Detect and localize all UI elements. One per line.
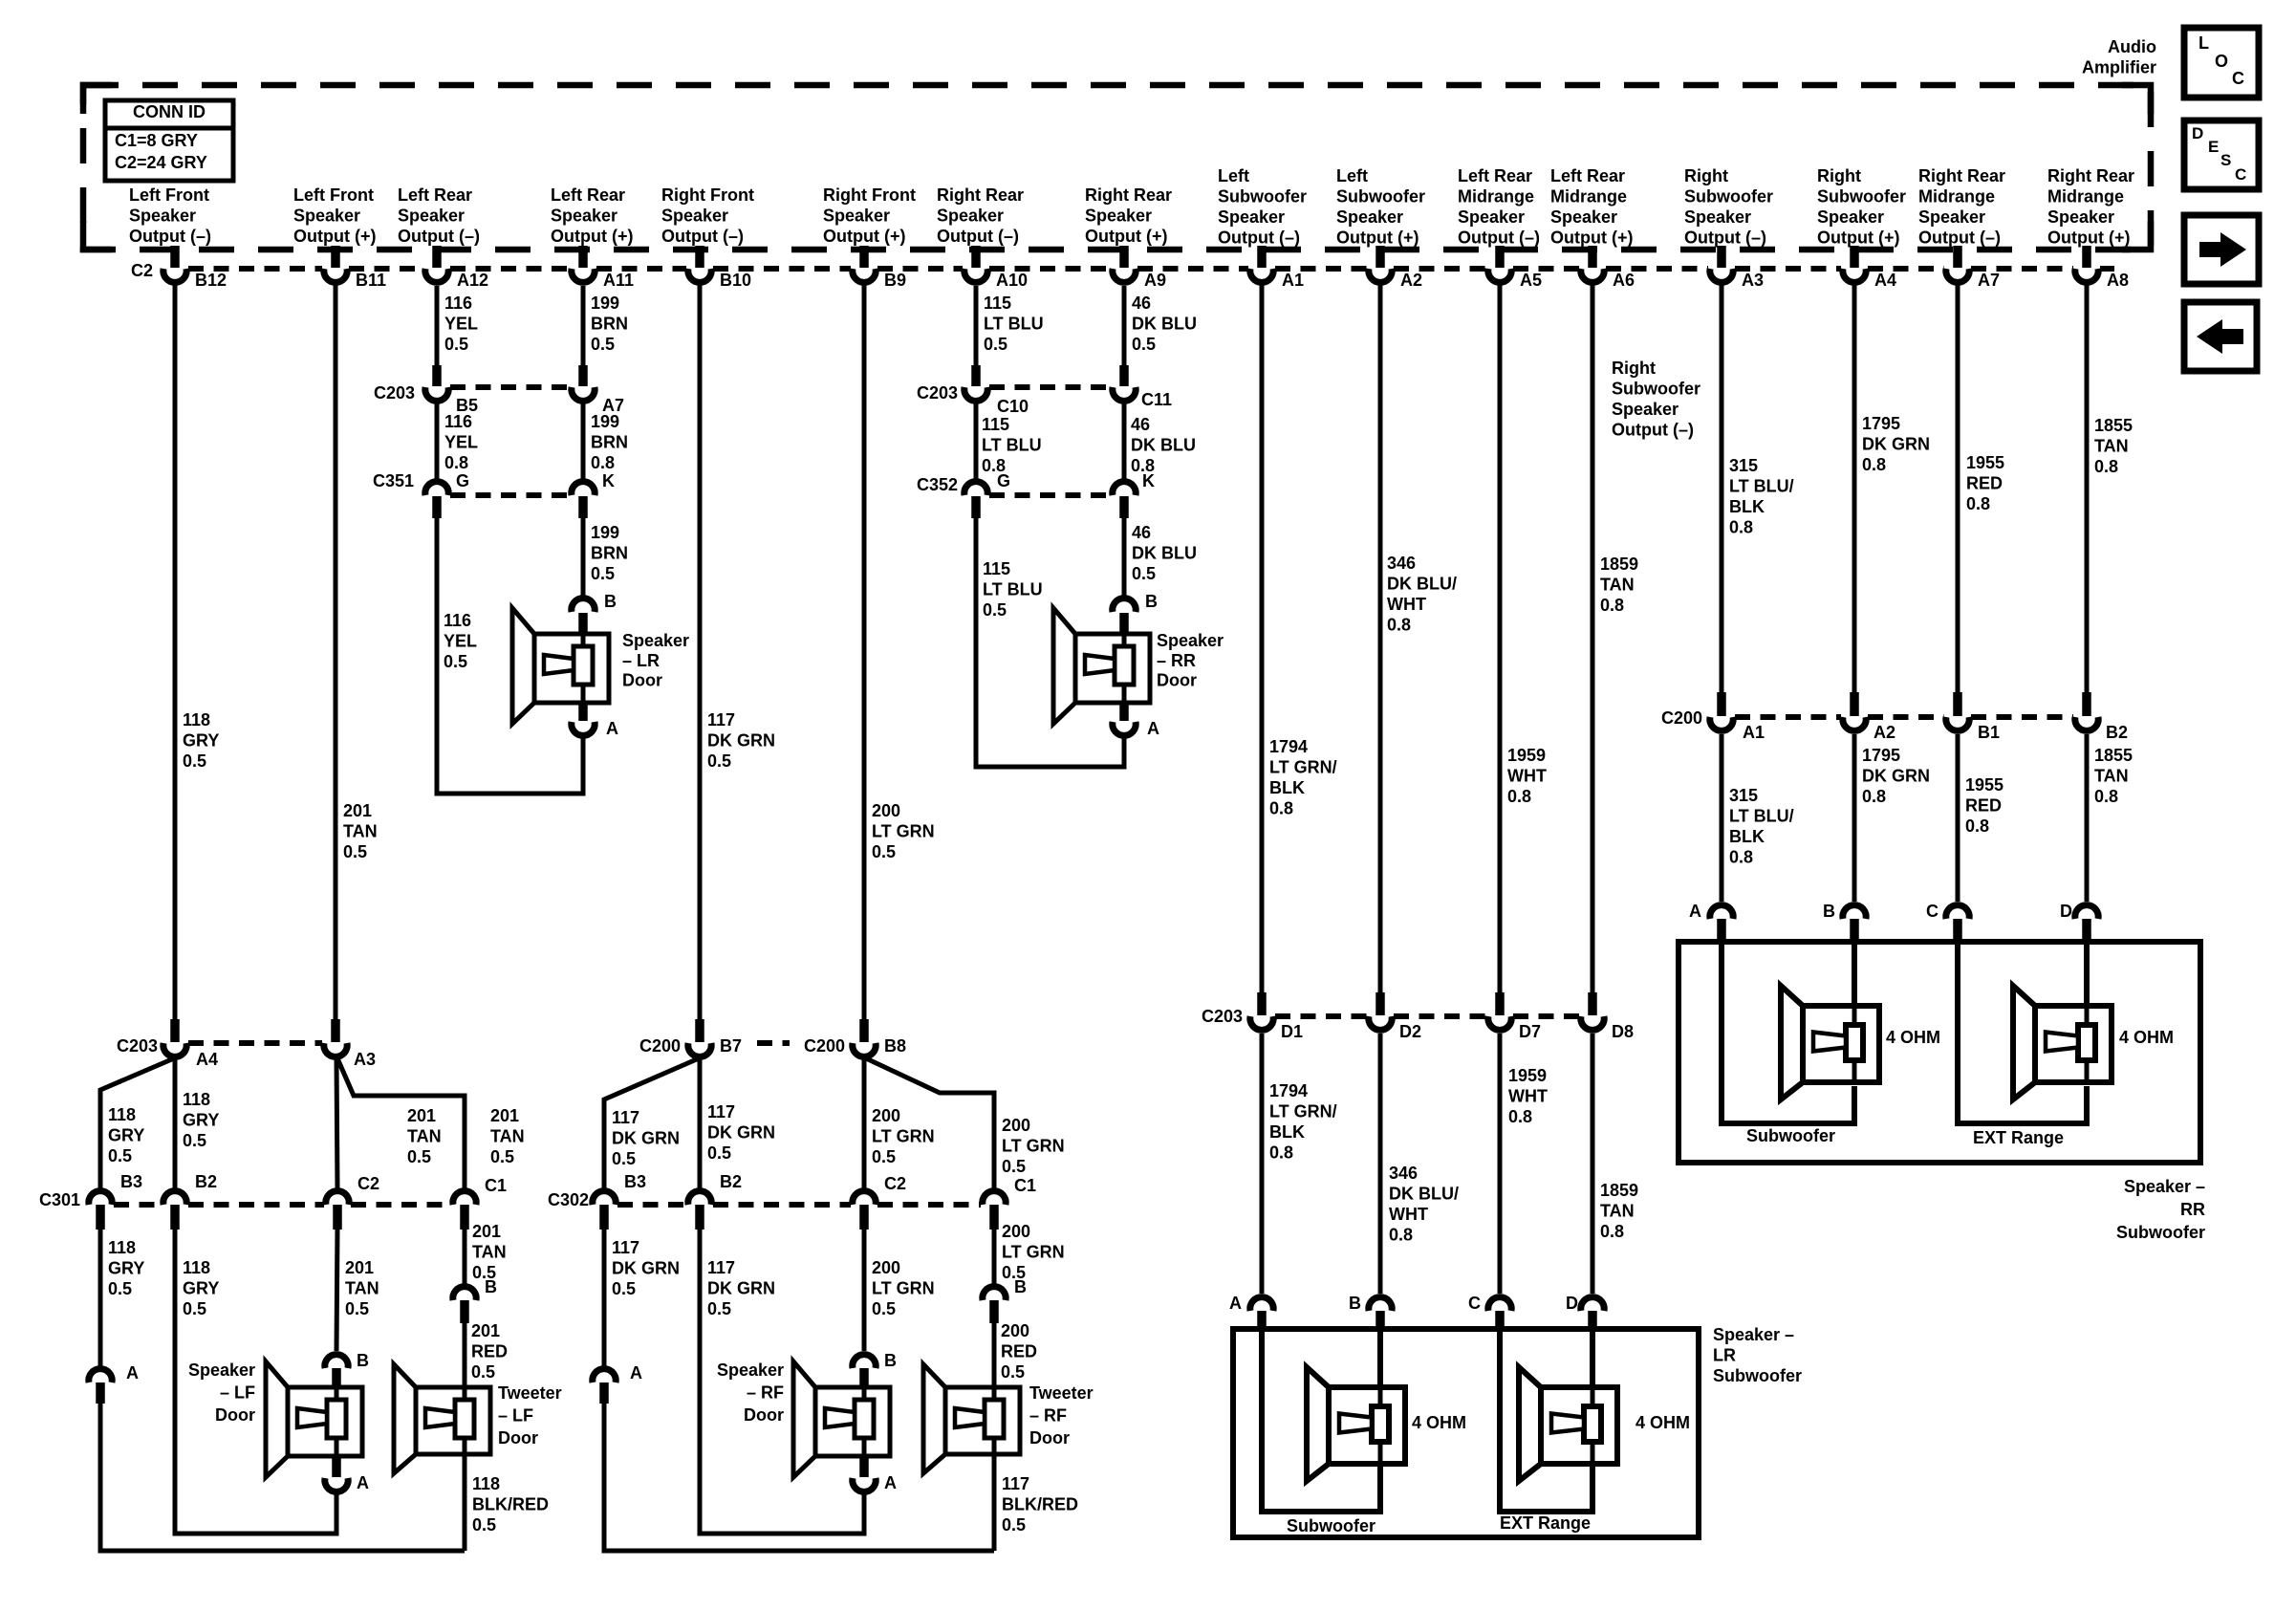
label 201 RED 0.5 (tweeter feed)	[471, 1321, 508, 1382]
svg-text:201: 201	[343, 801, 372, 820]
svg-text:C2: C2	[131, 261, 153, 280]
svg-text:Midrange: Midrange	[1458, 187, 1534, 207]
svg-text:D7: D7	[1519, 1022, 1541, 1041]
svg-text:C200: C200	[1661, 708, 1702, 728]
svg-text:117: 117	[612, 1108, 639, 1127]
label 201 TAN 0.5 (B11 run)	[343, 801, 378, 861]
label 200 LT GRN 0.5 (C1 branch)	[1002, 1116, 1065, 1176]
label 1795 DK GRN 0.8 (A4 upper)	[1862, 414, 1930, 474]
svg-text:D: D	[1566, 1294, 1578, 1313]
svg-text:C2: C2	[884, 1174, 906, 1193]
svg-text:Output (–): Output (–)	[1458, 229, 1540, 248]
svg-text:B3: B3	[624, 1172, 646, 1191]
speaker - RR subwoofer label	[2116, 1177, 2205, 1242]
connector C203 pin D7	[1488, 992, 1541, 1041]
svg-text:C1: C1	[1014, 1176, 1036, 1195]
svg-text:– LR: – LR	[622, 651, 660, 670]
svg-text:Door: Door	[744, 1405, 784, 1425]
wire LF tweeter to return	[463, 1454, 467, 1551]
svg-text:Speaker: Speaker	[2047, 207, 2114, 227]
speaker - LF door symbol	[266, 1361, 362, 1477]
svg-text:WHT: WHT	[1507, 767, 1547, 786]
svg-text:B9: B9	[884, 271, 906, 290]
svg-text:200: 200	[872, 801, 900, 820]
header pin A3: Right Subwoofer Speaker Output (–)	[1684, 166, 1773, 248]
svg-text:C11: C11	[1141, 390, 1172, 409]
C200 row dashed line (RF group)	[757, 1040, 790, 1046]
LR sub: subwoofer 4 OHM label	[1412, 1413, 1466, 1432]
svg-text:B2: B2	[195, 1172, 217, 1191]
wire 201 TAN from B11 down to C203	[334, 284, 338, 1021]
svg-text:Speaker: Speaker	[937, 207, 1004, 226]
label 46 DK BLU 0.5 (below K)	[1132, 523, 1197, 583]
svg-text:B: B	[1349, 1294, 1361, 1313]
svg-text:0.8: 0.8	[1508, 1107, 1532, 1126]
svg-text:A8: A8	[2107, 271, 2129, 290]
connector C352 pin G	[964, 471, 1010, 518]
svg-text:BLK/RED: BLK/RED	[472, 1495, 549, 1514]
svg-text:BLK/RED: BLK/RED	[1002, 1495, 1078, 1514]
wire D8 to LR sub D	[1591, 1034, 1595, 1294]
RR sub: EXT driver loop	[1958, 942, 2087, 1123]
svg-text:D1: D1	[1281, 1022, 1303, 1041]
connector C302 pin C1	[983, 1176, 1036, 1230]
wire 1855 TAN from A8	[2085, 284, 2090, 694]
wire B3 to LF door connector A	[98, 1228, 103, 1367]
svg-text:RED: RED	[1965, 796, 2002, 816]
svg-text:0.5: 0.5	[872, 1147, 896, 1166]
svg-text:TAN: TAN	[2094, 767, 2129, 786]
svg-text:B: B	[1145, 592, 1158, 611]
svg-text:LT GRN/: LT GRN/	[1269, 758, 1337, 777]
label 1859 TAN 0.8 (A6 upper)	[1600, 555, 1638, 615]
svg-text:1955: 1955	[1965, 775, 2004, 795]
label 1795 DK GRN 0.8 (A4 lower)	[1862, 746, 1930, 806]
speaker LF door A label	[357, 1473, 369, 1492]
svg-text:C302: C302	[548, 1190, 589, 1209]
connector C301 pin C2	[326, 1174, 379, 1230]
svg-text:0.5: 0.5	[591, 335, 615, 354]
legend LOC box	[2184, 28, 2259, 98]
LR sub: EXT driver loop	[1500, 1329, 1592, 1512]
RF door inline connector A	[593, 1363, 642, 1404]
wire B2 down to RF speaker A	[700, 1228, 864, 1534]
svg-text:LT GRN: LT GRN	[872, 1127, 935, 1146]
svg-text:C203: C203	[917, 383, 958, 403]
connector C200 (subwoofer) dashed line	[1735, 714, 2073, 720]
wire 346 DK BLU/WHT from A2	[1378, 284, 1383, 994]
svg-text:DK BLU: DK BLU	[1132, 315, 1197, 334]
legend DESC box	[2184, 120, 2259, 189]
svg-text:0.8: 0.8	[591, 453, 615, 472]
svg-text:118: 118	[183, 1090, 210, 1109]
LR sub: subwoofer driver feed	[1377, 1329, 1383, 1389]
svg-text:315: 315	[1729, 456, 1758, 475]
svg-text:Output (–): Output (–)	[1612, 421, 1694, 440]
label 115 LT BLU 0.5 (A10)	[984, 294, 1044, 354]
wire G down to RR speaker A	[976, 516, 1124, 767]
wire 1795 DK GRN from A4	[1852, 284, 1857, 694]
svg-text:Left Rear: Left Rear	[551, 185, 625, 205]
svg-text:TAN: TAN	[472, 1243, 507, 1262]
svg-text:GRY: GRY	[183, 1111, 219, 1130]
svg-text:Output (–): Output (–)	[1918, 229, 2001, 248]
svg-text:TAN: TAN	[2094, 437, 2129, 456]
svg-text:– LF: – LF	[498, 1406, 533, 1426]
svg-text:Speaker: Speaker	[661, 207, 728, 226]
svg-text:EXT Range: EXT Range	[1973, 1128, 2064, 1147]
RR sub: subwoofer driver loop	[1722, 942, 1854, 1123]
svg-text:A: A	[884, 1473, 897, 1492]
label 115 LT BLU 0.5 (to speaker)	[983, 559, 1043, 620]
svg-text:Speaker: Speaker	[1157, 631, 1224, 650]
wire B5 to C351 G	[435, 403, 440, 479]
label 118 GRY 0.5 (below B2)	[183, 1258, 219, 1318]
svg-text:B8: B8	[884, 1036, 906, 1056]
label 201 TAN 0.5 (below C2)	[345, 1258, 379, 1318]
label 116 YEL 0.5 (to speaker)	[444, 611, 477, 671]
svg-text:D: D	[2060, 902, 2072, 921]
svg-text:LT GRN: LT GRN	[1002, 1137, 1065, 1156]
header pin B12: Left Front Speaker Output (–)	[129, 185, 211, 246]
svg-text:118: 118	[108, 1238, 136, 1257]
speaker RR door B connector	[1113, 592, 1158, 632]
LF tweeter inline connector B	[453, 1277, 497, 1323]
LR sub: Subwoofer label	[1287, 1516, 1375, 1535]
svg-text:200: 200	[872, 1106, 900, 1125]
svg-text:LT GRN: LT GRN	[872, 1279, 935, 1298]
connector C200 pin A2	[1843, 692, 1895, 742]
svg-text:Output (–): Output (–)	[129, 227, 211, 246]
wire B3 to RF door connector A	[602, 1228, 607, 1367]
svg-text:C1: C1	[485, 1176, 507, 1195]
svg-text:Midrange: Midrange	[2047, 187, 2124, 207]
svg-text:200: 200	[872, 1258, 900, 1277]
svg-text:D: D	[2192, 124, 2203, 142]
svg-text:118: 118	[472, 1474, 500, 1493]
svg-text:Door: Door	[215, 1405, 255, 1425]
connector C2 label	[131, 261, 153, 280]
wire 199 BRN from A11	[581, 286, 586, 367]
svg-text:B2: B2	[720, 1172, 742, 1191]
amp pin A1 stub and connector	[1250, 246, 1304, 290]
svg-text:1955: 1955	[1966, 453, 2004, 472]
LR subwoofer pin B connector	[1349, 1294, 1392, 1331]
svg-text:YEL: YEL	[444, 315, 478, 334]
label 201 TAN 0.5 (C2 branch)	[407, 1106, 442, 1166]
audio amplifier box corner ticks	[83, 85, 2151, 250]
svg-text:118: 118	[183, 710, 210, 729]
svg-text:DK GRN: DK GRN	[1862, 435, 1930, 454]
svg-text:Right: Right	[1817, 166, 1861, 185]
svg-text:DK BLU: DK BLU	[1132, 544, 1197, 563]
svg-text:– RF: – RF	[1029, 1406, 1067, 1426]
connector C203 pin D1	[1250, 992, 1303, 1041]
svg-text:B: B	[604, 592, 617, 611]
svg-text:Left Rear: Left Rear	[1458, 166, 1532, 185]
wire branch B8 to C302 C2	[862, 1059, 867, 1188]
amp pin A7 stub and connector	[1946, 246, 2000, 290]
svg-text:201: 201	[345, 1258, 374, 1277]
label 1794 LT GRN/BLK 0.8 (A1 upper)	[1269, 737, 1337, 818]
svg-text:B1: B1	[1978, 723, 2000, 742]
label 116 YEL 0.8	[444, 412, 478, 472]
speaker RF door A connector	[853, 1455, 876, 1491]
svg-text:WHT: WHT	[1389, 1205, 1428, 1224]
C203 row dashed line (LF group)	[188, 1040, 322, 1046]
wire K down to RR speaker B	[1122, 516, 1127, 596]
label 200 RED 0.5 (tweeter feed)	[1001, 1321, 1037, 1382]
svg-text:A: A	[1229, 1294, 1242, 1313]
label Right Subwoofer Speaker Output (-) note	[1612, 359, 1700, 440]
svg-text:0.8: 0.8	[1507, 787, 1531, 806]
wire branch A4 to C301 B2	[173, 1059, 178, 1188]
svg-text:Tweeter: Tweeter	[498, 1383, 562, 1403]
svg-text:Subwoofer: Subwoofer	[1746, 1126, 1835, 1145]
svg-text:LT GRN: LT GRN	[1002, 1243, 1065, 1262]
connector C352 label	[917, 475, 958, 494]
svg-text:D8: D8	[1612, 1022, 1634, 1041]
tweeter - LF door symbol	[394, 1364, 490, 1473]
svg-text:Output (+): Output (+)	[293, 227, 376, 246]
connector C301 pin B2	[163, 1172, 217, 1230]
speaker LF door A connector	[325, 1455, 348, 1491]
tweeter - RF door symbol	[923, 1364, 1020, 1473]
svg-text:BLK: BLK	[1729, 827, 1765, 846]
wire 118 GRY from B12 down to C203	[173, 284, 178, 1021]
speaker RF door A label	[884, 1473, 897, 1492]
svg-text:B: B	[357, 1351, 369, 1370]
RF tweeter inline connector B	[983, 1277, 1027, 1323]
amp pin A5 stub and connector	[1488, 246, 1542, 290]
svg-text:0.5: 0.5	[108, 1279, 132, 1298]
svg-text:Door: Door	[498, 1428, 538, 1448]
svg-text:116: 116	[444, 611, 471, 630]
svg-text:46: 46	[1131, 415, 1150, 434]
header pin B10: Right Front Speaker Output (–)	[661, 185, 754, 246]
connector C200 (subwoofer) label	[1661, 708, 1702, 728]
speaker RF door B label	[884, 1351, 897, 1370]
svg-text:Subwoofer: Subwoofer	[1612, 380, 1700, 399]
amp pin B10 stub and connector	[688, 246, 751, 290]
svg-text:A6: A6	[1613, 271, 1635, 290]
connector C301 pin B3	[89, 1172, 142, 1230]
wire K down to LR speaker B	[581, 516, 586, 596]
wire tweeter B to tweeter box	[463, 1321, 467, 1387]
svg-text:C1=8 GRY: C1=8 GRY	[115, 131, 198, 150]
connector C352 pin K	[1113, 471, 1155, 518]
wire 115 LT BLU from A10	[974, 286, 979, 367]
RR subwoofer pin B connector	[1823, 902, 1866, 944]
label 1955 RED 0.8 (A7 lower)	[1965, 775, 2004, 836]
svg-text:116: 116	[444, 294, 472, 313]
svg-text:RED: RED	[471, 1342, 508, 1361]
svg-text:B: B	[1823, 902, 1835, 921]
svg-text:1959: 1959	[1508, 1066, 1547, 1085]
svg-text:BLK: BLK	[1729, 497, 1765, 516]
svg-text:1859: 1859	[1600, 1181, 1638, 1200]
svg-text:Right Front: Right Front	[823, 185, 916, 205]
svg-text:DK GRN: DK GRN	[707, 1123, 775, 1143]
svg-text:Right Rear: Right Rear	[937, 185, 1024, 205]
svg-text:B2: B2	[2106, 723, 2128, 742]
wire branch B7 to C302 B3	[604, 1058, 699, 1188]
svg-text:Speaker –: Speaker –	[1713, 1325, 1794, 1344]
speaker - RR door label	[1157, 631, 1224, 690]
svg-text:Subwoofer: Subwoofer	[1713, 1366, 1802, 1385]
svg-text:Output (+): Output (+)	[1550, 229, 1633, 248]
svg-text:E: E	[2208, 138, 2219, 156]
svg-text:201: 201	[407, 1106, 436, 1125]
svg-text:A: A	[357, 1473, 369, 1492]
svg-text:0.8: 0.8	[2094, 787, 2118, 806]
svg-text:TAN: TAN	[343, 822, 378, 841]
connector C351 label	[373, 471, 414, 490]
svg-text:C203: C203	[374, 383, 415, 403]
svg-text:Subwoofer: Subwoofer	[1218, 187, 1307, 207]
svg-text:0.5: 0.5	[108, 1146, 132, 1165]
header pin A1: Left Subwoofer Speaker Output (–)	[1218, 166, 1307, 248]
svg-text:B10: B10	[720, 271, 751, 290]
svg-text:L: L	[2199, 33, 2209, 53]
svg-text:DK GRN: DK GRN	[612, 1129, 680, 1148]
svg-text:Output (+): Output (+)	[1817, 229, 1899, 248]
legend forward arrow box	[2184, 215, 2259, 284]
svg-text:1795: 1795	[1862, 414, 1900, 433]
svg-text:A1: A1	[1282, 271, 1304, 290]
label 346 DK BLU/WHT 0.8 (A2 lower)	[1389, 1164, 1459, 1245]
svg-text:115: 115	[984, 294, 1011, 313]
svg-text:Output (–): Output (–)	[1684, 229, 1766, 248]
svg-text:A2: A2	[1874, 723, 1895, 742]
RR sub: EXT driver feed	[2084, 942, 2090, 1008]
svg-text:0.8: 0.8	[2094, 457, 2118, 476]
LR sub: subwoofer driver	[1307, 1367, 1405, 1481]
RR subwoofer pin C connector	[1926, 902, 1969, 944]
svg-text:Speaker: Speaker	[622, 631, 689, 650]
svg-text:200: 200	[1001, 1321, 1029, 1340]
speaker - LF door label	[188, 1361, 255, 1425]
speaker - RF door symbol	[793, 1361, 890, 1477]
svg-text:Output (+): Output (+)	[823, 227, 905, 246]
label 1855 TAN 0.8 (A8 lower)	[2094, 746, 2133, 806]
header pin A4: Right Subwoofer Speaker Output (+)	[1817, 166, 1906, 248]
legend back arrow box	[2184, 302, 2257, 371]
amp pin A12 stub and connector	[425, 246, 488, 290]
svg-text:GRY: GRY	[183, 1279, 219, 1298]
svg-text:DK GRN: DK GRN	[707, 1279, 775, 1298]
svg-text:C351: C351	[373, 471, 414, 490]
speaker RF door B connector	[853, 1355, 876, 1389]
wire 1859 TAN from A6	[1591, 284, 1595, 994]
svg-text:Midrange: Midrange	[1550, 187, 1627, 207]
header pin A6: Left Rear Midrange Speaker Output (+)	[1550, 166, 1633, 248]
svg-text:0.5: 0.5	[1002, 1157, 1026, 1176]
label 117 DK GRN 0.5 (below B3)	[612, 1238, 680, 1298]
svg-text:K: K	[602, 471, 615, 490]
svg-text:0.5: 0.5	[707, 751, 731, 771]
label 117 BLK/RED 0.5	[1002, 1474, 1078, 1535]
svg-text:DK BLU/: DK BLU/	[1387, 575, 1457, 594]
svg-text:C200: C200	[804, 1036, 845, 1056]
svg-text:LT BLU/: LT BLU/	[1729, 477, 1794, 496]
header pin A5: Left Rear Midrange Speaker Output (–)	[1458, 166, 1540, 248]
svg-text:Speaker: Speaker	[1458, 207, 1525, 227]
svg-text:Left Rear: Left Rear	[1550, 166, 1625, 185]
svg-text:0.5: 0.5	[183, 1299, 206, 1318]
connector C302 pin C2	[853, 1174, 906, 1230]
header pin A2: Left Subwoofer Speaker Output (+)	[1336, 166, 1425, 248]
svg-text:0.5: 0.5	[1132, 564, 1156, 583]
tweeter - RF door label	[1029, 1383, 1094, 1448]
connector C200 pin B7	[639, 1019, 742, 1056]
svg-text:C: C	[2232, 69, 2244, 88]
svg-text:Subwoofer: Subwoofer	[2116, 1223, 2205, 1242]
wire C10 to C352 G	[974, 403, 979, 479]
speaker - RR door symbol	[1053, 608, 1150, 724]
svg-text:BRN: BRN	[591, 544, 628, 563]
label 200 LT GRN 0.5 (below C2)	[872, 1258, 935, 1318]
label 1955 RED 0.8 (A7 upper)	[1966, 453, 2004, 513]
wire branch B8 to C302 C1	[866, 1058, 994, 1188]
svg-text:C10: C10	[997, 397, 1029, 416]
svg-text:Left Front: Left Front	[293, 185, 374, 205]
svg-text:118: 118	[108, 1105, 136, 1124]
label 118 GRY 0.5 (B2 branch)	[183, 1090, 219, 1150]
svg-text:Output (+): Output (+)	[1085, 227, 1167, 246]
svg-text:0.5: 0.5	[183, 751, 206, 771]
svg-text:0.8: 0.8	[1389, 1226, 1413, 1245]
svg-text:O: O	[2215, 52, 2228, 71]
header pin A11: Left Rear Speaker Output (+)	[551, 185, 633, 246]
svg-text:Speaker: Speaker	[1550, 207, 1617, 227]
svg-text:Speaker: Speaker	[1218, 207, 1285, 227]
svg-text:C203: C203	[1202, 1007, 1243, 1026]
connector C203 (subwoofer) label	[1202, 1007, 1243, 1026]
LR sub: EXT 4 OHM label	[1635, 1413, 1690, 1432]
svg-text:1794: 1794	[1269, 1081, 1308, 1100]
svg-text:Right Rear: Right Rear	[1918, 166, 2005, 185]
svg-text:0.8: 0.8	[1600, 596, 1624, 615]
wire branch B7 to C302 B2	[698, 1059, 703, 1188]
connector C302 pin B3	[593, 1172, 646, 1230]
svg-text:RR: RR	[2180, 1200, 2205, 1219]
amp pin A6 stub and connector	[1581, 246, 1635, 290]
wire branch A3 to C301 C1	[337, 1058, 465, 1188]
connector C200 pin B2	[2075, 692, 2128, 742]
svg-text:Speaker: Speaker	[1612, 400, 1679, 419]
wire door A down and right to tweeter return	[100, 1402, 465, 1551]
svg-text:YEL: YEL	[444, 433, 478, 452]
svg-text:Subwoofer: Subwoofer	[1817, 187, 1906, 207]
RR sub: EXT 4 OHM label	[2119, 1028, 2174, 1047]
svg-text:1794: 1794	[1269, 737, 1308, 756]
svg-text:G: G	[997, 471, 1010, 490]
svg-text:EXT Range: EXT Range	[1500, 1513, 1591, 1533]
svg-text:TAN: TAN	[407, 1127, 442, 1146]
wire branch A3 to C301 C2	[336, 1059, 337, 1188]
svg-text:G: G	[456, 471, 469, 490]
wire A2 to RR sub B	[1852, 734, 1857, 902]
svg-text:LT BLU/: LT BLU/	[1729, 807, 1794, 826]
svg-text:WHT: WHT	[1387, 595, 1426, 614]
wire branch A4 to C301 B3	[100, 1058, 174, 1188]
svg-text:Left Rear: Left Rear	[398, 185, 472, 205]
svg-text:DK BLU/: DK BLU/	[1389, 1185, 1459, 1204]
wire D7 to LR sub C	[1498, 1034, 1503, 1294]
svg-text:Door: Door	[1157, 671, 1197, 690]
header pin A10: Right Rear Speaker Output (–)	[937, 185, 1024, 246]
